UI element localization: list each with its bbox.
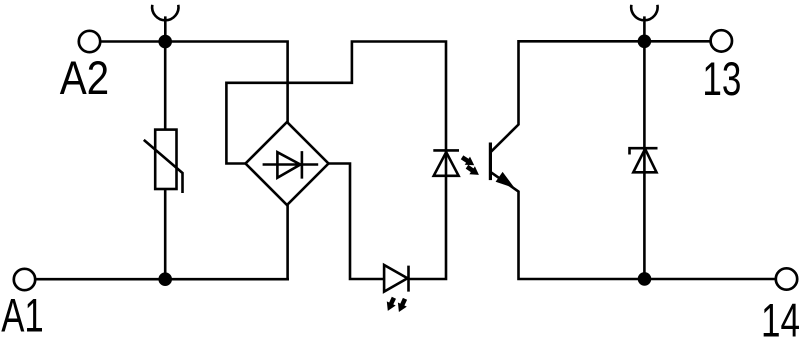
svg-text:A2: A2 xyxy=(60,51,109,104)
svg-text:13: 13 xyxy=(702,52,741,105)
svg-text:14: 14 xyxy=(761,294,800,337)
svg-text:A1: A1 xyxy=(1,289,44,337)
